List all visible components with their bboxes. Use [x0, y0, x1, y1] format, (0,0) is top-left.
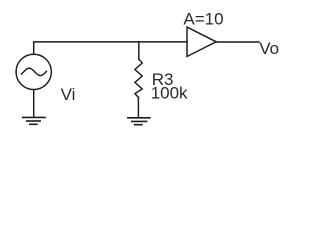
wire top horizontal from source to amplifier input	[34, 42, 187, 55]
voltage source sine symbol	[22, 68, 47, 75]
resistor R3 zigzag	[135, 59, 142, 97]
svg-text:Vo: Vo	[259, 39, 279, 58]
wire amplifier output to Vo	[216, 41, 259, 43]
svg-text:A=10: A=10	[183, 10, 223, 29]
wire resistor bottom lead	[137, 97, 139, 117]
ground under resistor	[128, 118, 150, 125]
node T-junction: wire resistor top lead	[138, 42, 140, 59]
voltage source Vi circle	[16, 54, 51, 89]
svg-text:Vi: Vi	[61, 85, 76, 104]
wire source bottom lead	[33, 90, 35, 117]
ground under source	[23, 117, 45, 124]
svg-text:100k: 100k	[151, 83, 188, 102]
amplifier A=10 triangle	[187, 27, 216, 56]
